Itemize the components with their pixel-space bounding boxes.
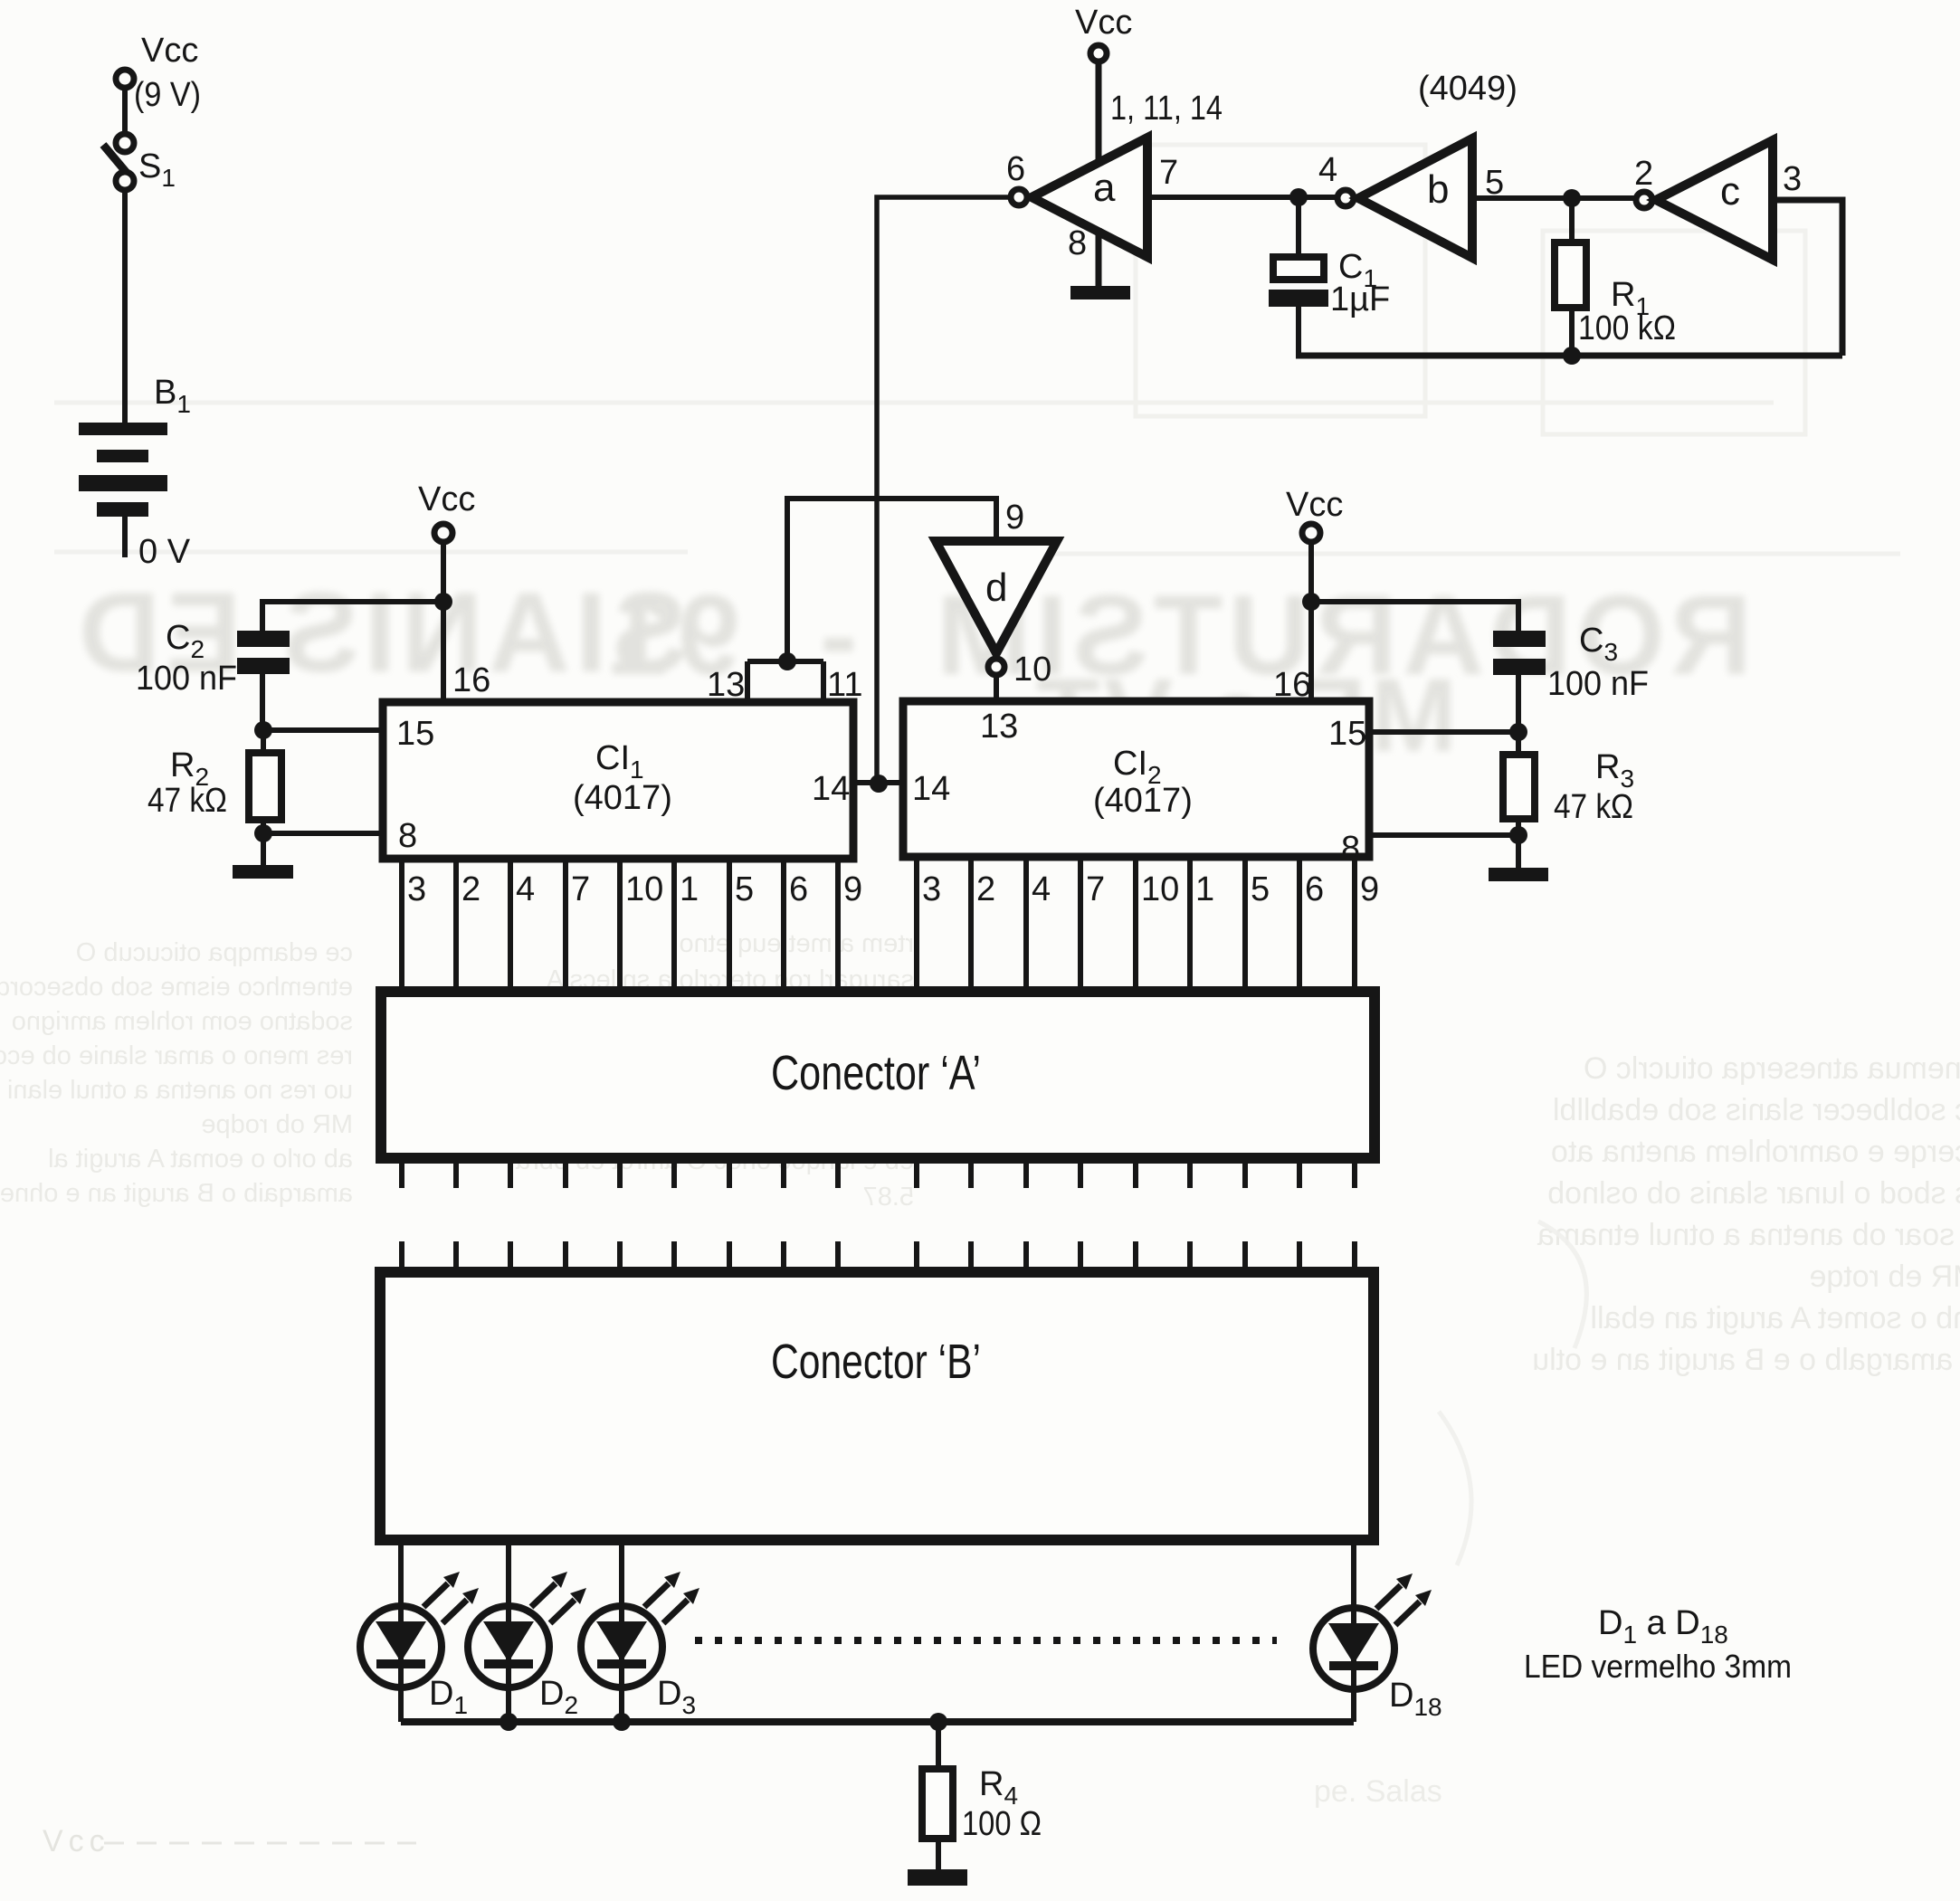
node junction pins 13/11 [747,652,823,700]
pin 14 label (CI1) [812,770,850,808]
svg-text:8: 8 [1068,224,1087,262]
inverter a [1011,138,1147,257]
resistor R4 [922,1722,1042,1869]
svg-text:d: d [985,566,1007,610]
pin 8 label (CI2) [1341,830,1360,868]
pin 15 label (CI2) [1328,715,1366,753]
wire Vcc to CI1 pin 16 and C2 [262,542,452,702]
svg-text:rtem a met euq etno: rtem a met euq etno [679,929,914,958]
connector A [381,992,1375,1158]
svg-text:Vcc: Vcc [43,1824,110,1858]
svg-text:10: 10 [1013,651,1051,689]
svg-text:Conector ‘B’: Conector ‘B’ [771,1335,981,1389]
svg-text:(4017): (4017) [1093,782,1193,820]
svg-text:onb o somet A arugit an eball: onb o somet A arugit an eball [1590,1301,1960,1335]
svg-text:acerqe e oamrohlem anetna ato: acerqe e oamrohlem anetna ato [1551,1135,1960,1169]
svg-text:res meno o amar slanie ob eco: res meno o amar slanie ob eco [0,1041,353,1070]
power terminal Vcc (CI2) [1286,486,1343,542]
svg-text:a: a [1093,166,1116,210]
svg-text:6: 6 [1305,870,1324,908]
power terminal Vcc (4049 pins 1, 11, 14) [1075,4,1132,62]
pin 4 label [1318,151,1337,189]
pin 9 label [1005,499,1024,537]
pin 1 of CI2 to connector A [1190,857,1214,993]
wire C2/R2 node to CI1 pin 15 [254,721,383,739]
connector B [380,1272,1374,1540]
pin 6 of CI1 to connector A [784,859,808,993]
ground (R4) [908,1869,967,1886]
pin label 1, 11, 14 [1110,90,1223,128]
wire connector B to D3 [619,1540,624,1722]
pin 16 label (CI1) [452,661,490,699]
svg-text:5: 5 [1251,870,1270,908]
wire inverter a output to node [1147,188,1308,206]
svg-text:10: 10 [625,870,663,908]
svg-text:100 Ω: 100 Ω [962,1805,1042,1843]
svg-text:Vcc: Vcc [1075,4,1132,42]
svg-text:47 kΩ: 47 kΩ [147,782,227,820]
svg-text:6: 6 [1006,150,1025,188]
svg-text:sodatno eom rohlem amrigno: sodatno eom rohlem amrigno [12,1007,353,1036]
pin 10 of CI1 to connector A [620,859,663,993]
svg-text:15: 15 [396,715,434,753]
connector A lower stubs [402,1162,1355,1188]
ground (R3) [1489,868,1548,881]
svg-text:15: 15 [1328,715,1366,753]
pin 4 of CI2 to connector A [1026,857,1051,993]
pin 9 of CI2 to connector A [1355,857,1379,993]
wire connector B to D18 [1351,1540,1356,1722]
pin 2 label [1634,155,1653,193]
wire Vcc to inverter a supply [1096,62,1102,165]
svg-text:4: 4 [1032,870,1051,908]
LED D2 [468,1572,586,1719]
svg-text:Vcc: Vcc [141,32,198,70]
power terminal Vcc (CI1) [418,480,475,542]
svg-text:13: 13 [980,708,1018,746]
svg-text:9: 9 [1005,499,1024,537]
svg-text:0 V: 0 V [138,533,191,571]
wire connector B to D1 [398,1540,404,1722]
capacitor C2 [136,619,290,729]
wire inverter c output feedback [1773,200,1842,356]
svg-text:9: 9 [843,870,862,908]
pin 16 label (CI2) [1273,666,1311,704]
wire R2 node to CI1 pin 8 and ground [254,824,383,865]
pin 7 of CI1 to connector A [566,859,590,993]
svg-text:2: 2 [461,870,480,908]
pin 5 of CI1 to connector A [729,859,754,993]
svg-text:es sbod o lunar slanis ob osln: es sbod o lunar slanis ob oslnob [1547,1176,1960,1211]
svg-text:1µF: 1µF [1330,280,1390,318]
pin 1 of CI1 to connector A [674,859,699,993]
battery B1 [79,374,191,517]
wire cathode bus [401,1713,1354,1731]
svg-text:1: 1 [1195,870,1214,908]
svg-text:10: 10 [1141,870,1179,908]
connector B upper stubs [402,1241,1355,1269]
wire C3/R3 node to CI2 pin 15 [1369,723,1527,741]
pin 3 of CI1 to connector A [402,859,426,993]
svg-text:7: 7 [571,870,590,908]
wire pin 8 to ground [1096,228,1102,288]
pin 10 of CI2 to connector A [1136,857,1179,993]
svg-text:(4049): (4049) [1418,70,1518,108]
svg-text:ab orlo o eomat A arugit al: ab orlo o eomat A arugit al [48,1145,353,1174]
label D1 a D18 LED vermelho 3mm [1524,1604,1792,1685]
svg-text:MR ob rodpe: MR ob rodpe [201,1110,353,1139]
wire S1 to B1 [122,190,128,423]
resistor R1 [1555,198,1676,356]
inverter c [1636,140,1773,260]
wire Vcc to CI2 pin 16 and C3 [1302,542,1518,701]
pin 10 label [1013,651,1051,689]
node 0 V [125,517,191,571]
wire inverter d output to CI2 pin 13 [994,675,999,699]
pin 15 label (CI1) [396,715,434,753]
svg-text:uo res no anetna a otnul elani: uo res no anetna a otnul elani [7,1076,353,1105]
LED D18 [1313,1573,1442,1721]
svg-text:c: c [1720,169,1740,214]
svg-text:3: 3 [1783,160,1802,198]
pin 8 label [1068,224,1087,262]
pin 3 of CI2 to connector A [917,857,941,993]
svg-text:8: 8 [398,817,417,855]
LED D3 [581,1572,699,1719]
svg-text:100 nF: 100 nF [136,660,237,698]
wire node to inverter b input (pin 4) [1299,195,1337,200]
dotted line D3 to D18 [695,1637,1277,1644]
pin 8 label (CI1) [398,817,417,855]
ground (inverter a) [1070,286,1130,299]
pin 11 label (CI1) [827,666,862,704]
svg-text:7: 7 [1086,870,1105,908]
svg-text:16: 16 [452,661,490,699]
svg-text:oc soblbecer slanis sob ebabll: oc soblbecer slanis sob ebabllbl [1553,1093,1960,1127]
svg-text:4: 4 [1318,151,1337,189]
IC CI2 (4017) [903,701,1369,857]
inverter b [1337,138,1472,258]
wire inverter b output to node [1472,189,1636,207]
svg-text:4: 4 [516,870,535,908]
ground (R2) [233,865,293,879]
power terminal Vcc (9 V) [116,32,201,114]
svg-text:6: 6 [789,870,808,908]
pin 3 label [1783,160,1802,198]
pin 2 of CI1 to connector A [456,859,480,993]
svg-text:LED vermelho 3mm: LED vermelho 3mm [1524,1648,1792,1685]
wire reset net (CI1 pins 13,11 to inverter d pin 9) [787,499,996,658]
svg-text:b: b [1427,167,1449,212]
pin 7 label [1159,154,1178,192]
svg-text:3: 3 [922,870,941,908]
svg-text:5: 5 [735,870,754,908]
svg-text:pe. Salas: pe. Salas [1314,1774,1442,1809]
IC CI1 (4017) [383,702,853,859]
svg-text:(9 V): (9 V) [134,76,201,114]
wire Vcc to S1 [122,88,128,134]
svg-text:atnemua atneserqa otiucrlc O: atnemua atneserqa otiucrlc O [1584,1051,1960,1086]
svg-text:(4017): (4017) [573,779,672,817]
pin 4 of CI1 to connector A [510,859,535,993]
LED D1 [360,1572,479,1719]
svg-text:.h amargalb o e B arugit an e: .h amargalb o e B arugit an e otlu [1532,1343,1960,1377]
pin 9 of CI1 to connector A [838,859,862,993]
svg-text:Conector ‘A’: Conector ‘A’ [771,1046,981,1100]
pin 13 label (CI2) [980,708,1018,746]
pin 6 of CI2 to connector A [1299,857,1324,993]
svg-text:Vcc: Vcc [1286,486,1343,524]
svg-text:2: 2 [1634,155,1653,193]
pin 13 label (CI1) [707,666,745,704]
svg-text:14: 14 [912,770,950,808]
svg-text:47 kΩ: 47 kΩ [1554,788,1633,826]
svg-text:2: 2 [976,870,995,908]
svg-text:1: 1 [680,870,699,908]
capacitor C1 [1269,197,1390,356]
svg-text:amarqaib o B arugit an e ohne: amarqaib o B arugit an e ohne [0,1179,353,1208]
svg-text:14: 14 [812,770,850,808]
wire pin 14 link CI1 to CI2 [853,775,903,793]
svg-text:ce edamqpa oticucub O: ce edamqpa oticucub O [76,938,353,967]
svg-text:3: 3 [407,870,426,908]
pin 6 label [1006,150,1025,188]
pin 2 of CI2 to connector A [971,857,995,993]
pin 5 label [1485,164,1504,202]
switch S1 [103,134,176,192]
capacitor C3 [1493,622,1649,732]
resistor R3 [1503,732,1634,835]
label (4049) [1418,70,1518,108]
svg-text:bl soar ob anetna a otnul etna: bl soar ob anetna a otnul etnama [1537,1218,1960,1252]
resistor R2 [147,730,281,833]
wire connector B to D2 [506,1540,511,1722]
svg-text:1, 11, 14: 1, 11, 14 [1110,90,1223,128]
wire R3 node to CI2 pin 8 and ground [1369,826,1527,868]
inverter d [936,541,1057,675]
wire inverter a input (pin 6) long feedback [877,197,1011,781]
svg-text:Vcc: Vcc [418,480,475,518]
svg-text:5.87: 5.87 [863,1183,914,1212]
pin 7 of CI2 to connector A [1080,857,1105,993]
pin 14 label (CI2) [912,770,950,808]
svg-text:9: 9 [1360,870,1379,908]
svg-text:16: 16 [1273,666,1311,704]
svg-text:100 kΩ: 100 kΩ [1578,309,1676,347]
svg-text:.MR eb rotqe: .MR eb rotqe [1809,1259,1960,1294]
svg-text:etnemhco eisme sob obsecorq: etnemhco eisme sob obsecorq [0,973,353,1002]
pin 5 of CI2 to connector A [1245,857,1270,993]
svg-text:7: 7 [1159,154,1178,192]
svg-text:100 nF: 100 nF [1547,665,1649,703]
wire oscillator bottom return [1296,347,1842,365]
